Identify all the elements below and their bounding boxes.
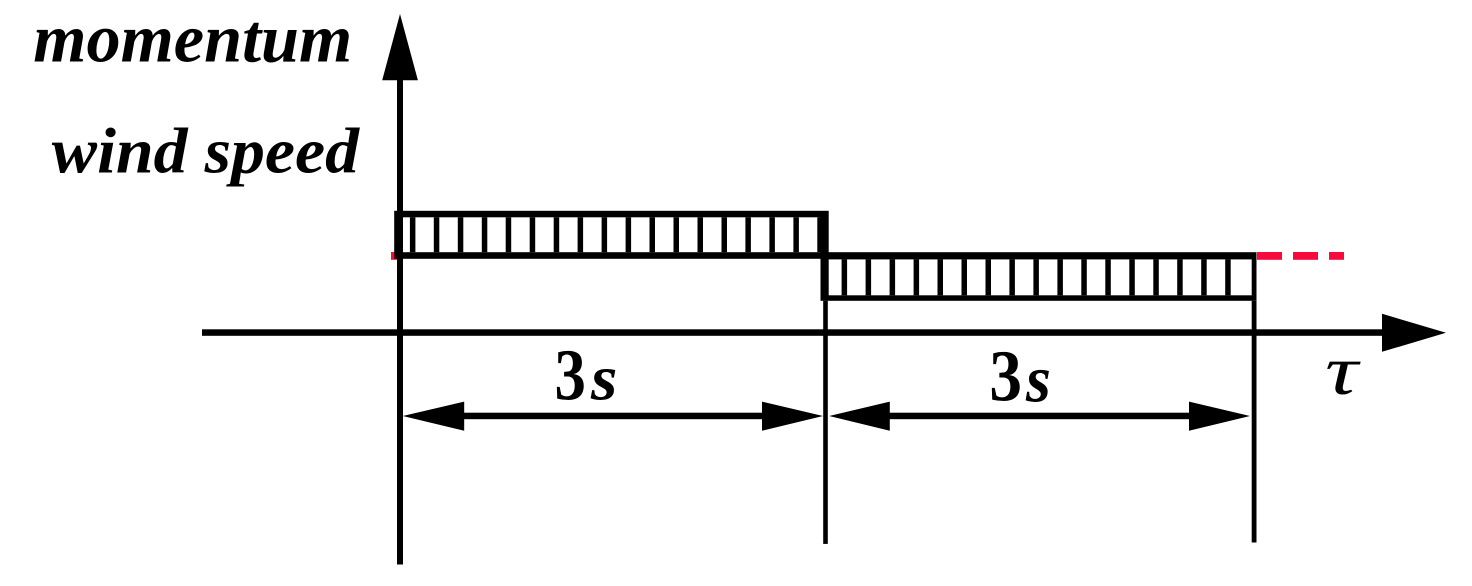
svg-text:3: 3 <box>989 335 1022 416</box>
svg-text:momentum: momentum <box>33 0 352 76</box>
svg-text:3: 3 <box>555 335 586 416</box>
svg-text:s: s <box>590 342 617 414</box>
svg-text:s: s <box>1025 344 1051 417</box>
svg-text:wind speed: wind speed <box>52 115 361 187</box>
svg-text:τ: τ <box>1325 333 1362 410</box>
